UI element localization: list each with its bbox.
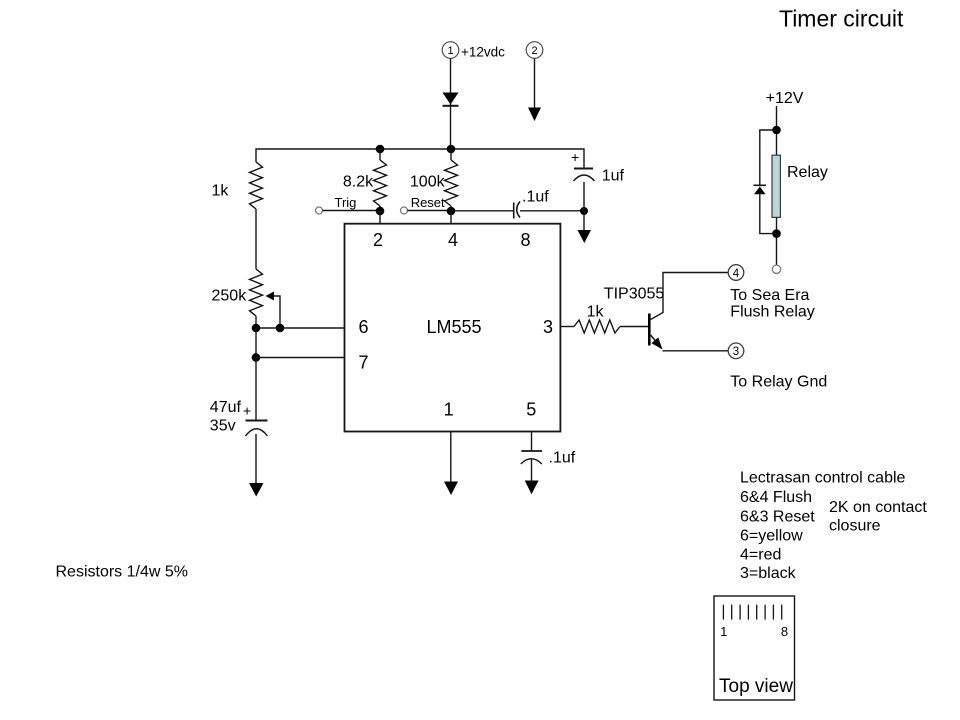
svg-text:To Sea Era: To Sea Era <box>730 287 809 304</box>
node junction on rail at 100k <box>447 145 456 154</box>
svg-text:+12V: +12V <box>766 90 804 107</box>
ground below 47uf <box>249 483 264 497</box>
svg-text:3: 3 <box>733 346 739 358</box>
svg-text:3: 3 <box>543 317 553 337</box>
svg-text:4=red: 4=red <box>740 546 781 563</box>
svg-text:1uf: 1uf <box>602 168 625 185</box>
wire node to pin 4 <box>450 211 452 224</box>
node junction pin7 <box>252 353 261 362</box>
svg-text:Trig: Trig <box>335 195 357 210</box>
svg-text:TIP3055: TIP3055 <box>604 285 665 302</box>
wire pin 5 to cap <box>531 432 533 451</box>
connector terminal circle 1 <box>442 42 459 59</box>
svg-text:To Relay Gnd: To Relay Gnd <box>730 374 827 391</box>
node junction at 1uf <box>580 207 588 215</box>
svg-text:.1uf: .1uf <box>549 450 576 467</box>
wire cap to ground <box>531 460 533 482</box>
wire 1k to 250k <box>255 209 257 269</box>
wire left rail down <box>255 328 257 358</box>
svg-text:1k: 1k <box>212 183 230 200</box>
wire 1k to transistor base <box>620 326 648 328</box>
wire Trig to node <box>323 210 381 212</box>
svg-text:6=yellow: 6=yellow <box>740 527 803 544</box>
wire 250k bottom to pin6 rail <box>255 316 257 328</box>
potentiometer 250k <box>250 269 263 316</box>
svg-text:1: 1 <box>444 400 454 420</box>
svg-text:6: 6 <box>358 317 368 337</box>
wire pin 1 to ground <box>450 432 452 482</box>
flyback diode across relay <box>760 130 777 185</box>
svg-text:47uf: 47uf <box>210 399 242 416</box>
wire cap to 1uf node <box>520 210 584 212</box>
diode on +12vdc feed <box>443 93 459 105</box>
svg-text:+: + <box>243 403 251 419</box>
node junction reset / pin4 <box>447 207 456 216</box>
node junction relay top <box>772 126 781 135</box>
capacitor .1uf (reset line) <box>513 203 515 219</box>
svg-text:4: 4 <box>733 268 740 280</box>
connector pins ticks <box>723 605 781 620</box>
svg-text:8: 8 <box>520 230 530 250</box>
resistor 8.2k <box>379 149 381 160</box>
svg-text:6&3 Reset: 6&3 Reset <box>740 509 815 526</box>
connector terminal circle 4 <box>728 265 744 281</box>
wire +12V to relay <box>776 106 778 155</box>
svg-text:3=black: 3=black <box>740 565 797 582</box>
node junction trig / pin2 <box>376 207 385 216</box>
terminal Trig open circle <box>316 207 323 214</box>
connector top view box <box>714 596 795 700</box>
wire 47uf to ground <box>255 434 257 483</box>
node junction wiper <box>276 324 285 333</box>
resistor 1k (left) <box>250 162 263 209</box>
svg-text:+: + <box>571 149 579 165</box>
potentiometer wiper arrow <box>266 292 275 301</box>
op-amp/IC LM555 body <box>345 224 561 432</box>
wire Reset to node <box>408 210 452 212</box>
wire 1uf to node <box>583 182 585 211</box>
capacitor .1uf (pin 5) <box>521 450 542 452</box>
svg-text:Reset: Reset <box>411 195 445 210</box>
ground below pin 5 cap <box>525 481 539 495</box>
svg-text:Relay: Relay <box>787 164 828 181</box>
svg-text:2K on contact: 2K on contact <box>829 499 927 516</box>
svg-text:2: 2 <box>373 230 383 250</box>
svg-text:1k: 1k <box>587 303 605 320</box>
svg-text:100k: 100k <box>410 174 446 191</box>
ground below 1uf node <box>583 211 585 230</box>
svg-text:Timer circuit: Timer circuit <box>779 6 904 32</box>
svg-text:Resistors 1/4w 5%: Resistors 1/4w 5% <box>56 563 189 580</box>
wire reset node to .1uf cap <box>451 210 513 212</box>
svg-text:closure: closure <box>829 518 881 535</box>
wire relay bottom <box>776 217 778 265</box>
svg-text:8: 8 <box>781 624 788 639</box>
wire from terminal 1 down to top rail <box>450 58 452 149</box>
svg-text:8.2k: 8.2k <box>343 174 374 191</box>
terminal open circle relay output <box>772 265 780 273</box>
wire to pin 7 <box>256 357 345 359</box>
wire node to pin 2 <box>379 211 381 224</box>
svg-text:Flush Relay: Flush Relay <box>730 304 814 321</box>
connector terminal circle 3 <box>728 343 744 359</box>
svg-text:Top view: Top view <box>719 676 793 697</box>
node junction on rail at 8.2k <box>376 145 385 154</box>
svg-text:1: 1 <box>447 45 453 57</box>
svg-text:2: 2 <box>531 45 537 57</box>
relay coil <box>772 155 780 217</box>
resistor 1k (base) <box>574 320 620 333</box>
svg-text:6&4 Flush: 6&4 Flush <box>740 489 812 506</box>
svg-text:1: 1 <box>720 624 727 639</box>
wire down to 47uf <box>255 358 257 421</box>
resistor 100k <box>450 149 452 160</box>
node junction pin6 left <box>252 324 261 333</box>
wire from terminal 2 with arrow <box>534 58 536 110</box>
terminal Reset open circle <box>401 207 408 214</box>
svg-text:7: 7 <box>358 352 368 372</box>
wire to pin 6 <box>256 327 345 329</box>
svg-text:+12vdc: +12vdc <box>461 45 505 60</box>
svg-text:.1uf: .1uf <box>522 189 549 206</box>
svg-text:5: 5 <box>526 400 536 420</box>
connector terminal circle 2 <box>526 42 543 59</box>
svg-text:4: 4 <box>448 230 458 250</box>
svg-text:35v: 35v <box>210 418 236 435</box>
svg-text:250k: 250k <box>212 287 248 304</box>
node junction relay bottom <box>772 229 781 238</box>
ground below pin 1 <box>444 482 458 496</box>
svg-text:Lectrasan control cable: Lectrasan control cable <box>740 470 906 487</box>
wire pin 3 to 1k <box>560 326 574 328</box>
wire top supply rail <box>256 149 584 168</box>
svg-text:LM555: LM555 <box>426 317 481 337</box>
